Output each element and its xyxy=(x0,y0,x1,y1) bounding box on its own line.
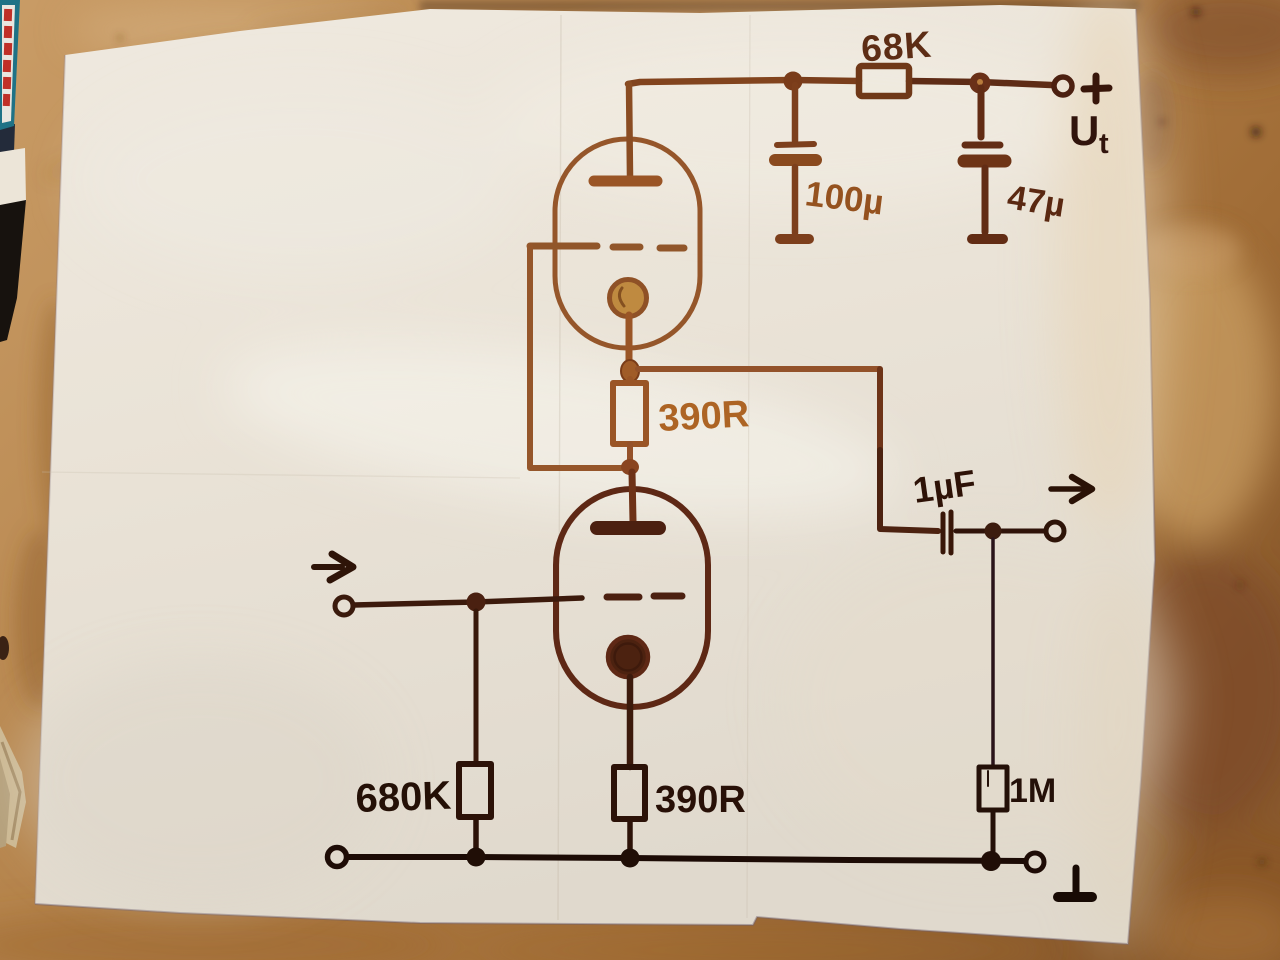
terminal ground left xyxy=(328,848,347,867)
marker pen top-left xyxy=(0,0,26,342)
resistor R5 390R lower xyxy=(614,767,645,819)
tube V2 anode lead xyxy=(632,472,633,521)
svg-text:68K: 68K xyxy=(860,24,934,70)
output arrow xyxy=(1051,486,1083,492)
node ground junction at R5 xyxy=(621,849,640,868)
wire: R3 to ground rail xyxy=(473,817,479,855)
wire: R2 bottom lead xyxy=(627,444,633,462)
node junction on rail at 100u xyxy=(784,72,803,91)
svg-text:1µF: 1µF xyxy=(910,462,978,511)
node ground junction at R4 xyxy=(981,851,1001,871)
terminal + output circle xyxy=(1054,77,1072,95)
resistor R3 680K xyxy=(459,764,491,817)
wire: R4 to ground rail xyxy=(991,810,996,855)
wire: cathode V1 to coupling cap, horizontal xyxy=(638,366,879,372)
resistor R2 390R upper xyxy=(613,383,646,444)
input arrow xyxy=(314,564,342,570)
tube V2 envelope xyxy=(556,489,708,707)
ground symbol xyxy=(1073,868,1080,894)
resistor R1 68K xyxy=(859,66,909,96)
wire: input to V2 grid xyxy=(354,598,582,605)
node input junction xyxy=(467,593,486,612)
wire: B+ rail left segment xyxy=(628,80,793,84)
capacitor C2 47u lead xyxy=(978,88,985,137)
node output junction xyxy=(985,523,1002,540)
wire: ground rail xyxy=(347,857,1025,861)
wire: cap to output terminal xyxy=(956,529,1046,534)
wire: junction down to R3 xyxy=(474,611,479,764)
tube V1 grid lead xyxy=(530,243,597,250)
svg-text:390R: 390R xyxy=(657,393,750,440)
svg-text:U: U xyxy=(1069,107,1099,154)
tube V1 envelope xyxy=(555,139,700,348)
terminal input circle xyxy=(335,597,353,615)
terminal output circle xyxy=(1046,522,1064,540)
capacitor C2 47u plates xyxy=(965,142,1000,149)
tube V2 cathode xyxy=(608,637,648,677)
tube V1 grid dashes xyxy=(613,244,640,251)
svg-text:t: t xyxy=(1099,128,1109,160)
capacitor C1 100u plates xyxy=(777,144,814,145)
shadow strip above paper top edge xyxy=(420,0,1140,12)
svg-text:1M: 1M xyxy=(1009,772,1056,810)
node cathode V1 teardrop xyxy=(621,360,639,382)
small wooden sticks bottom-left xyxy=(0,636,26,848)
node below R2 xyxy=(621,459,639,475)
label plus sign xyxy=(1084,88,1109,89)
wire: R2 top lead xyxy=(627,379,633,383)
capacitor C3 1uF plates xyxy=(941,514,946,552)
tube V1 cathode xyxy=(610,280,647,317)
paper creases xyxy=(558,15,561,920)
tube V2 cathode lead xyxy=(627,677,634,767)
node junction on rail at 47u xyxy=(970,73,991,94)
svg-text:390R: 390R xyxy=(655,779,746,821)
wire: R5 to ground rail xyxy=(627,819,633,856)
resistor R4 1M xyxy=(979,767,1007,810)
tube V1 anode lead xyxy=(629,84,630,176)
wire: B+ rail right segment xyxy=(909,81,1051,85)
tube V2 anode plate xyxy=(597,521,659,535)
wire: B+ rail middle segment xyxy=(793,80,859,81)
tube V1 anode plate xyxy=(594,176,657,187)
node ground junction at R3 xyxy=(467,848,486,867)
capacitor C1 100u lead xyxy=(792,85,799,141)
wire: output node down to R4 xyxy=(991,539,995,767)
terminal ground right xyxy=(1026,853,1044,871)
tube V2 grid dashes xyxy=(607,594,639,601)
tube V1 cathode lead xyxy=(626,315,633,362)
wire: V1 grid to R2 bottom (SRPP) vertical xyxy=(530,246,621,468)
wire: down to coupling cap xyxy=(877,369,883,450)
svg-text:680K: 680K xyxy=(355,774,452,821)
